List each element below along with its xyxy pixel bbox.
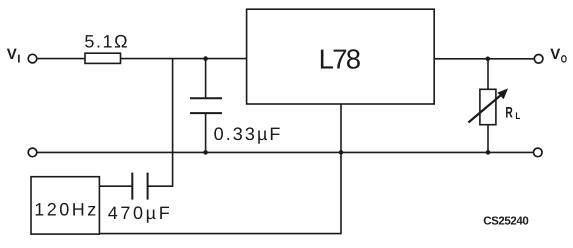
- svg-text:I: I: [17, 54, 20, 66]
- svg-text:L78: L78: [319, 43, 362, 74]
- svg-text:R: R: [505, 105, 512, 122]
- svg-text:120Hz: 120Hz: [34, 200, 96, 220]
- svg-text:CS25240: CS25240: [483, 216, 529, 228]
- svg-text:O: O: [561, 54, 567, 66]
- svg-text:470µF: 470µF: [108, 203, 170, 223]
- svg-text:5.1Ω: 5.1Ω: [84, 32, 127, 52]
- svg-text:V: V: [7, 46, 17, 63]
- svg-text:0.33µF: 0.33µF: [214, 124, 281, 144]
- svg-text:V: V: [550, 46, 560, 63]
- svg-text:L: L: [515, 111, 520, 122]
